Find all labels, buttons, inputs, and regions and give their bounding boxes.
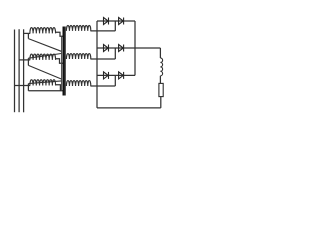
- wire: riser to diode row 3 midpoint: [114, 75, 116, 86]
- wire: primary winding 1 start drop: [27, 33, 29, 38]
- wire: primary side vertical bus along core: [61, 36, 63, 91]
- primary winding coil L1p: [30, 28, 56, 34]
- wire: bottom closing wire of primary polygon: [28, 90, 63, 92]
- wire: secondary 2 output to midpoint riser: [90, 58, 115, 60]
- wire: inductor to load resistor: [159, 76, 161, 84]
- wire: phase line B (middle vertical bus): [18, 29, 20, 112]
- wire: delta diagonal bus down to winding3 start: [28, 81, 61, 84]
- secondary winding coil L3s: [66, 81, 90, 86]
- wire: primary winding 3 start vertical (landing through tap): [27, 84, 29, 91]
- wire: delta diagonal winding2 start down to bus: [28, 65, 61, 79]
- wire: DC positive output down to filter inductor: [159, 48, 161, 58]
- wire: DC negative bus (left vertical): [96, 21, 98, 108]
- primary winding coil L3p: [30, 80, 56, 86]
- diode D5 (row 3 left): [104, 72, 109, 79]
- inductor Ld (filter choke): [160, 58, 162, 76]
- wire: secondary 1 output to midpoint riser: [90, 30, 115, 32]
- resistor Rload (load): [159, 83, 163, 96]
- wire: primary winding 2 start vertical (landing to drop): [27, 58, 29, 65]
- diode D2 (row 1 right): [119, 18, 124, 25]
- diode D6 (row 3 right): [119, 72, 124, 79]
- diode D1 (row 1 left): [104, 18, 109, 25]
- primary winding coil L2p: [30, 54, 56, 60]
- wire: load resistor to bottom rail: [160, 97, 162, 108]
- secondary winding coil L1s: [66, 25, 90, 30]
- wire: delta diagonal winding1 start down to bus: [28, 39, 61, 52]
- secondary winding coil L2s: [66, 54, 90, 59]
- wire: diode row 2 horizontal (continues to load): [97, 47, 160, 49]
- wire: tap from phase C to primary winding 1: [24, 32, 31, 34]
- wire: riser to diode row 1 midpoint: [114, 21, 116, 31]
- wire: primary winding 2 end step to core bus: [55, 59, 64, 64]
- wire: DC positive bus (right vertical): [134, 21, 136, 75]
- diode D4 (row 2 right): [119, 45, 124, 52]
- wire: riser to diode row 2 midpoint: [114, 48, 116, 59]
- transformer core bar right: [64, 27, 66, 96]
- wire: phase line C (right vertical bus): [23, 29, 25, 112]
- wire: tap from phase A to primary winding 3: [15, 85, 31, 87]
- diode D3 (row 2 left): [104, 45, 109, 52]
- wire: primary winding 1 end step to core bus: [55, 32, 64, 36]
- wire: delta diagonal bus down to winding2 start: [28, 54, 61, 59]
- wire: tap from phase B to primary winding 2: [19, 59, 30, 61]
- wire: phase line A (left vertical bus): [14, 30, 16, 113]
- wire: secondary 3 output to midpoint riser: [90, 85, 115, 87]
- wire: bottom return rail: [97, 107, 161, 109]
- transformer core bar left: [62, 27, 64, 96]
- wire: diode row 3 horizontal: [97, 74, 135, 76]
- wire: diode row 1 horizontal: [97, 20, 135, 22]
- wire: primary winding 3 end step down: [55, 85, 60, 91]
